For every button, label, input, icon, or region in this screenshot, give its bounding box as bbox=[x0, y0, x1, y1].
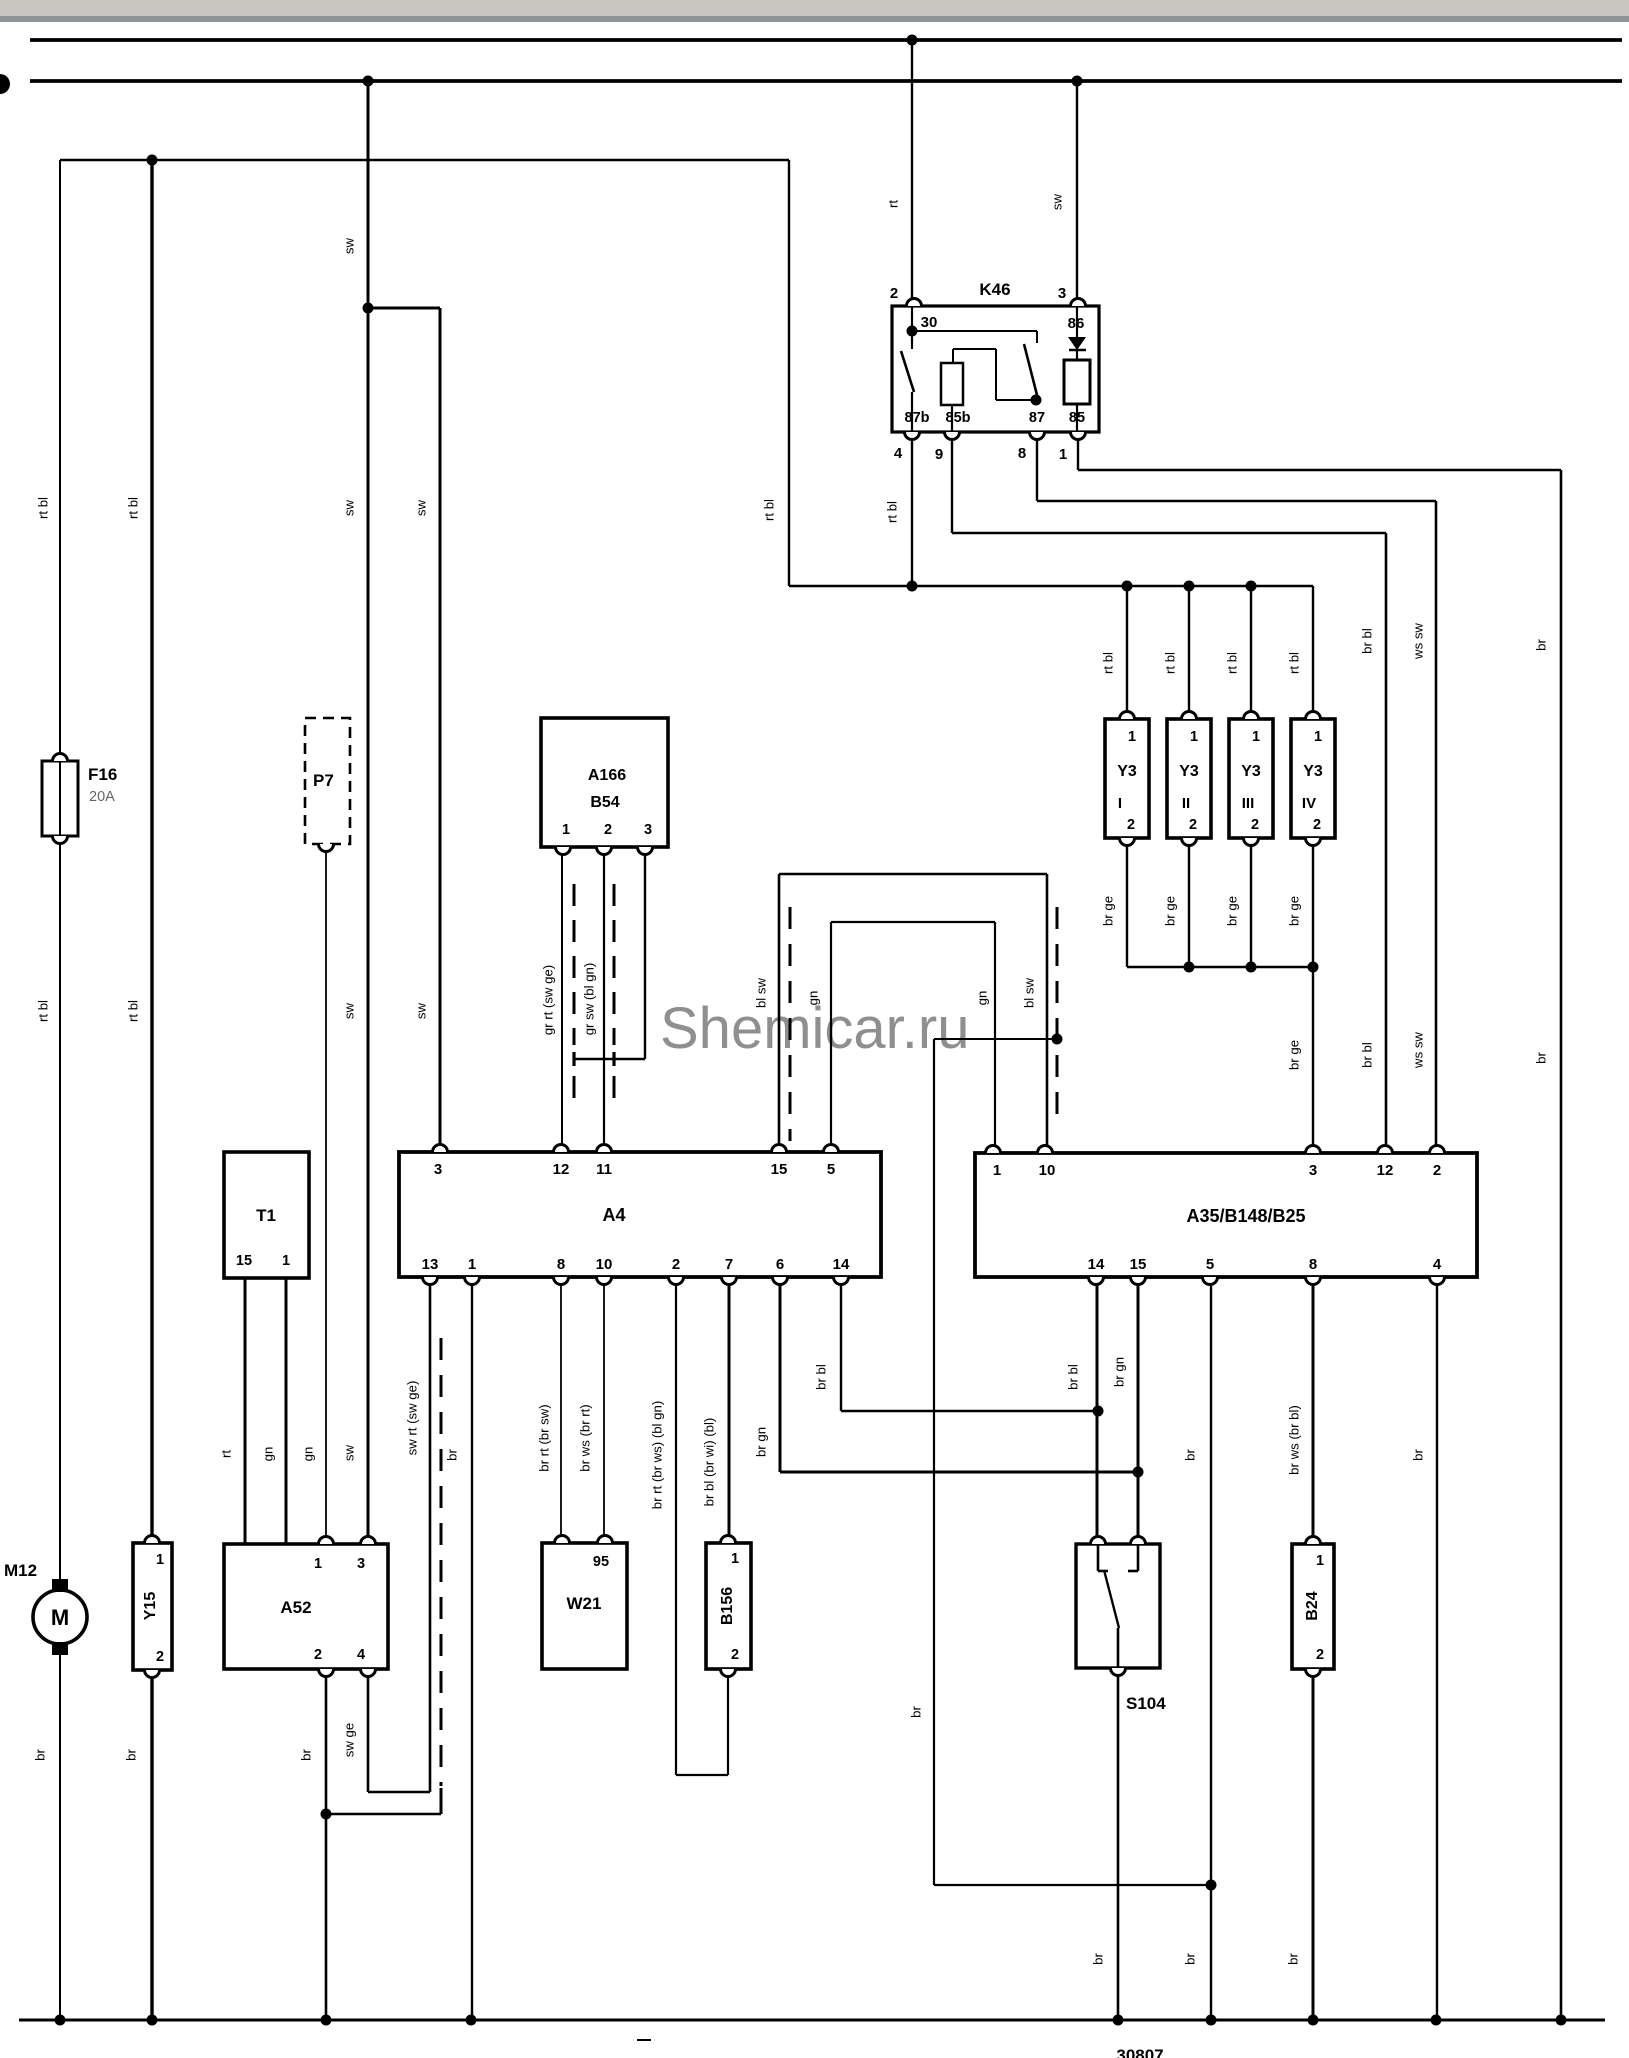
svg-text:M: M bbox=[51, 1605, 69, 1630]
svg-text:br rt (br sw): br rt (br sw) bbox=[536, 1404, 551, 1471]
svg-text:rt bl: rt bl bbox=[1224, 652, 1239, 674]
svg-text:M12: M12 bbox=[4, 1561, 37, 1580]
svg-text:rt bl: rt bl bbox=[1162, 652, 1177, 674]
svg-text:2: 2 bbox=[1189, 817, 1197, 833]
svg-text:1: 1 bbox=[156, 1552, 164, 1568]
svg-text:rt bl: rt bl bbox=[761, 499, 776, 521]
svg-text:br bl (br wi) (bl): br bl (br wi) (bl) bbox=[701, 1418, 716, 1507]
svg-text:br ws (br bl): br ws (br bl) bbox=[1286, 1405, 1301, 1475]
svg-text:1: 1 bbox=[468, 1256, 476, 1273]
svg-text:gn: gn bbox=[300, 1447, 315, 1462]
svg-text:15: 15 bbox=[1130, 1256, 1147, 1273]
svg-text:4: 4 bbox=[357, 1647, 365, 1663]
svg-text:br rt (br ws) (bl gn): br rt (br ws) (bl gn) bbox=[649, 1401, 664, 1509]
svg-text:br: br bbox=[1182, 1953, 1197, 1965]
svg-text:2: 2 bbox=[890, 285, 898, 302]
svg-text:3: 3 bbox=[1309, 1162, 1317, 1179]
svg-text:sw rt (sw ge): sw rt (sw ge) bbox=[404, 1381, 419, 1456]
svg-text:13: 13 bbox=[422, 1256, 439, 1273]
svg-text:sw ge: sw ge bbox=[341, 1723, 356, 1757]
svg-text:2: 2 bbox=[1313, 817, 1321, 833]
svg-text:87b: 87b bbox=[905, 410, 930, 426]
svg-text:3: 3 bbox=[434, 1161, 442, 1178]
svg-text:12: 12 bbox=[1377, 1162, 1394, 1179]
svg-text:Y3: Y3 bbox=[1241, 763, 1261, 780]
svg-text:2: 2 bbox=[731, 1647, 739, 1663]
svg-text:8: 8 bbox=[1018, 445, 1026, 462]
svg-text:B24: B24 bbox=[1304, 1591, 1321, 1620]
svg-text:4: 4 bbox=[1433, 1256, 1442, 1273]
svg-text:gn: gn bbox=[805, 991, 820, 1006]
svg-text:1: 1 bbox=[1316, 1553, 1324, 1569]
svg-text:IV: IV bbox=[1302, 795, 1316, 812]
svg-text:br: br bbox=[32, 1749, 47, 1761]
svg-text:gn: gn bbox=[260, 1447, 275, 1462]
svg-text:br ge: br ge bbox=[1224, 896, 1239, 926]
svg-text:A4: A4 bbox=[602, 1205, 625, 1225]
svg-text:br bl: br bl bbox=[1359, 1042, 1374, 1068]
svg-text:rt: rt bbox=[218, 1450, 233, 1458]
svg-text:95: 95 bbox=[593, 1554, 609, 1570]
svg-text:Y15: Y15 bbox=[142, 1592, 159, 1621]
svg-text:14: 14 bbox=[1088, 1256, 1105, 1273]
svg-text:rt bl: rt bl bbox=[35, 1000, 50, 1022]
svg-text:2: 2 bbox=[672, 1256, 680, 1273]
svg-text:12: 12 bbox=[553, 1161, 570, 1178]
svg-text:br: br bbox=[1285, 1953, 1300, 1965]
svg-text:gr sw (bl gn): gr sw (bl gn) bbox=[581, 963, 596, 1036]
svg-text:B156: B156 bbox=[719, 1587, 736, 1625]
svg-text:sw: sw bbox=[413, 1002, 428, 1019]
svg-text:Y3: Y3 bbox=[1179, 763, 1199, 780]
svg-text:2: 2 bbox=[156, 1649, 164, 1665]
svg-text:br: br bbox=[1090, 1953, 1105, 1965]
svg-text:sw: sw bbox=[341, 1002, 356, 1019]
svg-text:ws sw: ws sw bbox=[1410, 1032, 1425, 1069]
svg-text:Y3: Y3 bbox=[1117, 763, 1137, 780]
svg-text:br: br bbox=[444, 1449, 459, 1461]
svg-text:bl sw: bl sw bbox=[753, 978, 768, 1009]
svg-text:br: br bbox=[1182, 1449, 1197, 1461]
svg-text:br ge: br ge bbox=[1286, 1040, 1301, 1070]
svg-text:gr rt (sw ge): gr rt (sw ge) bbox=[540, 965, 555, 1035]
svg-text:A166: A166 bbox=[588, 767, 626, 784]
svg-text:14: 14 bbox=[833, 1256, 850, 1273]
svg-text:2: 2 bbox=[1251, 817, 1259, 833]
svg-text:5: 5 bbox=[1206, 1256, 1214, 1273]
svg-text:W21: W21 bbox=[567, 1594, 602, 1613]
svg-text:1: 1 bbox=[1190, 729, 1198, 745]
svg-text:20A: 20A bbox=[89, 789, 115, 805]
svg-text:br: br bbox=[1533, 1052, 1548, 1064]
svg-text:87: 87 bbox=[1029, 410, 1045, 426]
svg-text:86: 86 bbox=[1068, 315, 1085, 332]
svg-text:B54: B54 bbox=[590, 794, 619, 811]
svg-text:15: 15 bbox=[771, 1161, 788, 1178]
svg-text:br ge: br ge bbox=[1100, 896, 1115, 926]
svg-text:rt: rt bbox=[885, 200, 900, 208]
svg-text:br gn: br gn bbox=[753, 1427, 768, 1457]
svg-text:3: 3 bbox=[1058, 285, 1066, 302]
svg-text:sw: sw bbox=[1049, 193, 1064, 210]
svg-text:A35/B148/B25: A35/B148/B25 bbox=[1186, 1206, 1305, 1226]
svg-text:3: 3 bbox=[644, 822, 652, 838]
svg-text:15: 15 bbox=[236, 1253, 252, 1269]
svg-text:1: 1 bbox=[562, 822, 570, 838]
svg-text:1: 1 bbox=[993, 1162, 1001, 1179]
svg-text:11: 11 bbox=[596, 1161, 612, 1178]
svg-text:br ws (br rt): br ws (br rt) bbox=[577, 1404, 592, 1471]
svg-text:rt bl: rt bl bbox=[1100, 652, 1115, 674]
svg-text:rt bl: rt bl bbox=[1286, 652, 1301, 674]
svg-text:1: 1 bbox=[1128, 729, 1136, 745]
svg-text:III: III bbox=[1242, 795, 1255, 812]
svg-text:P7: P7 bbox=[313, 771, 334, 790]
svg-text:1: 1 bbox=[1059, 446, 1067, 463]
svg-text:85b: 85b bbox=[946, 410, 971, 426]
svg-text:br bl: br bl bbox=[813, 1364, 828, 1390]
svg-text:5: 5 bbox=[827, 1161, 835, 1178]
svg-text:30: 30 bbox=[921, 314, 938, 331]
svg-text:br ge: br ge bbox=[1162, 896, 1177, 926]
svg-text:8: 8 bbox=[557, 1256, 565, 1273]
svg-text:br bl: br bl bbox=[1065, 1364, 1080, 1390]
svg-text:rt bl: rt bl bbox=[125, 497, 140, 519]
svg-text:br gn: br gn bbox=[1111, 1357, 1126, 1387]
svg-text:ws sw: ws sw bbox=[1410, 623, 1425, 660]
svg-text:Y3: Y3 bbox=[1303, 763, 1323, 780]
svg-text:br bl: br bl bbox=[1359, 628, 1374, 654]
svg-text:br: br bbox=[298, 1749, 313, 1761]
svg-text:sw: sw bbox=[413, 499, 428, 516]
svg-text:II: II bbox=[1182, 795, 1190, 812]
svg-text:rt bl: rt bl bbox=[35, 497, 50, 519]
svg-text:10: 10 bbox=[596, 1256, 613, 1273]
svg-text:I: I bbox=[1118, 795, 1122, 812]
svg-text:S104: S104 bbox=[1126, 1694, 1166, 1713]
svg-text:1: 1 bbox=[1314, 729, 1322, 745]
svg-text:7: 7 bbox=[725, 1256, 733, 1273]
svg-text:2: 2 bbox=[1127, 817, 1135, 833]
svg-text:sw: sw bbox=[341, 499, 356, 516]
svg-text:3: 3 bbox=[357, 1556, 365, 1572]
svg-text:9: 9 bbox=[935, 446, 943, 463]
svg-text:2: 2 bbox=[1433, 1162, 1441, 1179]
svg-text:A52: A52 bbox=[280, 1598, 311, 1617]
svg-text:rt bl: rt bl bbox=[884, 501, 899, 523]
svg-text:8: 8 bbox=[1309, 1256, 1317, 1273]
svg-text:K46: K46 bbox=[979, 280, 1010, 299]
svg-text:1: 1 bbox=[731, 1551, 739, 1567]
svg-text:2: 2 bbox=[604, 822, 612, 838]
svg-text:sw: sw bbox=[341, 237, 356, 254]
svg-text:br ge: br ge bbox=[1286, 896, 1301, 926]
svg-text:br: br bbox=[123, 1749, 138, 1761]
svg-text:4: 4 bbox=[894, 445, 903, 462]
svg-text:1: 1 bbox=[282, 1253, 290, 1269]
svg-text:1: 1 bbox=[314, 1556, 322, 1572]
svg-text:br: br bbox=[1410, 1449, 1425, 1461]
svg-text:sw: sw bbox=[341, 1444, 356, 1461]
svg-text:2: 2 bbox=[1316, 1647, 1324, 1663]
svg-text:6: 6 bbox=[776, 1256, 784, 1273]
svg-text:bl sw: bl sw bbox=[1021, 978, 1036, 1009]
svg-text:rt bl: rt bl bbox=[125, 1000, 140, 1022]
svg-text:1: 1 bbox=[1252, 729, 1260, 745]
svg-text:T1: T1 bbox=[256, 1206, 276, 1225]
svg-text:30807: 30807 bbox=[1116, 2046, 1163, 2058]
svg-text:2: 2 bbox=[314, 1647, 322, 1663]
svg-text:gn: gn bbox=[974, 991, 989, 1006]
svg-text:F16: F16 bbox=[88, 765, 117, 784]
svg-text:br: br bbox=[1533, 639, 1548, 651]
svg-text:br: br bbox=[908, 1706, 923, 1718]
svg-text:10: 10 bbox=[1039, 1162, 1056, 1179]
svg-text:85: 85 bbox=[1069, 410, 1085, 426]
